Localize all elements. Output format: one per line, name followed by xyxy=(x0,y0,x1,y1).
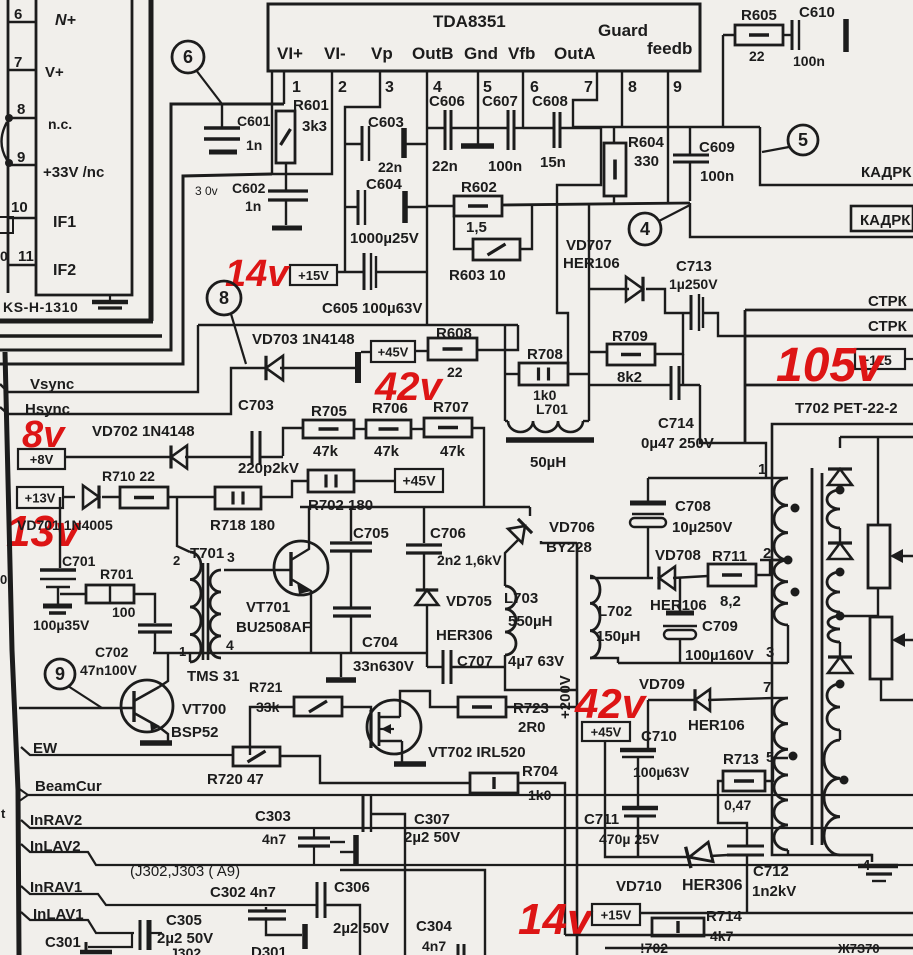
svg-text:HER306: HER306 xyxy=(436,627,493,644)
svg-text:VD708: VD708 xyxy=(655,547,701,564)
flyback primary winding 1 xyxy=(774,478,788,560)
svg-text:1,5: 1,5 xyxy=(466,219,487,236)
svg-text:4n7: 4n7 xyxy=(422,938,446,954)
C305 cap xyxy=(139,920,142,950)
long wire y325 xyxy=(198,324,518,326)
svg-text:IF1: IF1 xyxy=(53,214,76,231)
svg-text:8: 8 xyxy=(219,288,229,308)
svg-text:TDA8351: TDA8351 xyxy=(433,12,506,31)
C704 ground xyxy=(340,653,342,677)
+115 rail xyxy=(745,384,913,387)
svg-text:C303: C303 xyxy=(255,808,291,825)
capacitor C714 0u47 250V xyxy=(670,366,673,400)
svg-text:3: 3 xyxy=(227,549,235,565)
svg-text:1: 1 xyxy=(758,461,766,478)
wires between R705-707 xyxy=(354,428,366,430)
long line R602 net xyxy=(502,203,690,205)
VD707 symbol xyxy=(626,277,643,301)
svg-text:C703: C703 xyxy=(238,397,274,414)
wire circled6 to C601 xyxy=(196,70,222,104)
C712 bottom stub xyxy=(746,855,748,913)
svg-text:R604: R604 xyxy=(628,134,665,151)
T702 outline xyxy=(772,424,913,855)
wire circled9 diag xyxy=(68,686,102,708)
T701 secondary winding xyxy=(210,570,221,658)
screen bottom wire xyxy=(881,679,913,700)
svg-text:22: 22 xyxy=(749,48,765,64)
+45V supply label 2 xyxy=(395,469,443,492)
junction bar xyxy=(355,352,361,383)
circled 6 callout xyxy=(172,41,204,73)
svg-text:C602: C602 xyxy=(232,180,266,196)
svg-text:J302: J302 xyxy=(170,945,201,955)
svg-text:HER306: HER306 xyxy=(682,877,743,894)
svg-text:C608: C608 xyxy=(532,93,568,110)
x505 drop xyxy=(504,325,506,421)
svg-text:C704: C704 xyxy=(362,634,399,651)
svg-text:C713: C713 xyxy=(676,258,712,275)
left frame bus xyxy=(5,352,19,955)
svg-text:+13V: +13V xyxy=(25,491,56,506)
svg-text:2: 2 xyxy=(173,553,180,568)
R707 right drop xyxy=(472,428,484,507)
svg-text:C707: C707 xyxy=(457,653,493,670)
VT702 source ground xyxy=(401,741,403,762)
screen arrow xyxy=(894,639,913,641)
svg-text:IF2: IF2 xyxy=(53,262,76,279)
left pin bus xyxy=(7,0,10,293)
svg-text:C711: C711 xyxy=(584,811,619,828)
capacitor C601 1n xyxy=(221,104,223,127)
svg-text:15n: 15n xyxy=(540,154,566,171)
InRAV1 wire xyxy=(21,886,317,905)
small connector box xyxy=(0,217,13,233)
L703 bottom to rail xyxy=(505,655,577,690)
bottom box wires xyxy=(340,870,485,955)
svg-text:C606: C606 xyxy=(429,93,465,110)
svg-text:n.c.: n.c. xyxy=(48,116,72,132)
pin 10 stub xyxy=(8,217,36,219)
node wire VD708 row xyxy=(590,577,653,579)
svg-text:R704: R704 xyxy=(522,763,559,780)
svg-text:+15V: +15V xyxy=(298,268,329,283)
svg-text:2R0: 2R0 xyxy=(518,719,546,736)
svg-text:feedb: feedb xyxy=(647,39,692,58)
svg-text:47k: 47k xyxy=(313,443,339,460)
svg-text:42v: 42v xyxy=(574,680,648,727)
STRK line 2 xyxy=(745,335,913,338)
VT701 emitter xyxy=(291,579,311,653)
svg-text:C306: C306 xyxy=(334,879,370,896)
svg-text:InRAV2: InRAV2 xyxy=(30,812,82,829)
svg-text:7: 7 xyxy=(584,79,593,96)
svg-text:VD703 1N4148: VD703 1N4148 xyxy=(252,331,355,348)
svg-text:47n100V: 47n100V xyxy=(80,662,137,678)
svg-text:VD701 1N4005: VD701 1N4005 xyxy=(17,517,113,533)
svg-text:33n630V: 33n630V xyxy=(353,658,414,675)
svg-text:0: 0 xyxy=(0,248,8,264)
flyback core xyxy=(811,468,814,845)
flyback secondary winding 2 xyxy=(827,572,840,612)
svg-text:VD702 1N4148: VD702 1N4148 xyxy=(92,423,195,440)
VT702 drain wire xyxy=(400,691,458,717)
svg-text:3k3: 3k3 xyxy=(302,118,327,135)
svg-text:5: 5 xyxy=(798,130,808,150)
R705 left xyxy=(283,428,303,456)
InLAV2 wire xyxy=(21,844,913,865)
T701 core xyxy=(202,563,205,660)
svg-text:9: 9 xyxy=(17,149,25,166)
circled 8 callout xyxy=(207,281,241,315)
svg-text:R720 47: R720 47 xyxy=(207,771,264,788)
svg-text:R723: R723 xyxy=(513,700,549,717)
BeamCur wire xyxy=(28,794,913,796)
svg-text:BeamCur: BeamCur xyxy=(35,778,102,795)
capacitor C605 100u63V xyxy=(363,253,366,290)
+115 label box xyxy=(855,349,905,369)
wire circled8 diag xyxy=(231,314,246,364)
svg-text:R714: R714 xyxy=(706,908,743,925)
svg-text:HER106: HER106 xyxy=(563,255,620,272)
R720 right wire xyxy=(280,756,470,783)
EW wire xyxy=(21,747,233,755)
pin1 wire extension xyxy=(648,477,748,479)
R704 right wire xyxy=(518,783,565,935)
svg-text:OutA: OutA xyxy=(554,44,596,63)
step from guard xyxy=(557,204,568,363)
switch contacts pins 8-9 xyxy=(5,114,13,122)
svg-text:47k: 47k xyxy=(374,443,400,460)
capacitor C707 4u7 63V xyxy=(442,650,445,684)
R721 left wire xyxy=(250,707,294,755)
guard horizontal xyxy=(573,126,760,128)
svg-text:9: 9 xyxy=(673,79,682,96)
VT700 emitter ground xyxy=(159,727,168,741)
IC U601 TDA8351 box xyxy=(268,4,700,71)
BeamCur connector xyxy=(18,788,28,802)
svg-text:C302 4n7: C302 4n7 xyxy=(210,884,276,901)
svg-text:!702: !702 xyxy=(640,940,668,955)
svg-text:100: 100 xyxy=(112,604,136,620)
svg-text:4k7: 4k7 xyxy=(710,928,734,944)
VT700 base wire xyxy=(19,707,134,709)
svg-text:220p2kV: 220p2kV xyxy=(238,460,299,477)
flyback rectifier diode D2 xyxy=(828,543,852,559)
svg-text:11: 11 xyxy=(18,248,34,265)
flyback pin 7 wire xyxy=(773,697,788,699)
svg-text:C607: C607 xyxy=(482,93,518,110)
svg-text:4µ7 63V: 4µ7 63V xyxy=(508,653,564,670)
svg-text:8: 8 xyxy=(17,101,25,118)
wire C714 to flyback xyxy=(700,385,766,478)
R721 right to gate xyxy=(342,707,371,714)
svg-text:R603 10: R603 10 xyxy=(449,267,506,284)
+15V supply label xyxy=(290,265,337,285)
flyback pin 2 wire xyxy=(760,559,788,561)
svg-text:8,2: 8,2 xyxy=(720,593,741,610)
svg-text:VD709: VD709 xyxy=(639,676,685,693)
svg-text:1n: 1n xyxy=(245,198,261,214)
svg-text:1: 1 xyxy=(292,79,301,96)
T701 primary bottom xyxy=(189,653,191,662)
VT701 collector xyxy=(291,507,309,560)
svg-text:1µ250V: 1µ250V xyxy=(669,276,718,292)
resistor R601 3k3 xyxy=(276,111,295,163)
svg-text:Vsync: Vsync xyxy=(30,376,74,393)
svg-text:R707: R707 xyxy=(433,399,469,416)
svg-text:VD706: VD706 xyxy=(549,519,595,536)
svg-text:C702: C702 xyxy=(95,644,129,660)
svg-text:4: 4 xyxy=(226,637,234,653)
svg-text:Gnd: Gnd xyxy=(464,44,498,63)
+15V supply label bottom xyxy=(592,904,640,925)
svg-text:6: 6 xyxy=(14,6,22,23)
svg-text:VI+: VI+ xyxy=(277,44,303,63)
+200V rail xyxy=(576,543,579,955)
wire circled4 diag xyxy=(659,205,690,221)
svg-text:4: 4 xyxy=(640,219,650,239)
VI- loop around R601 xyxy=(272,71,332,174)
svg-text:L703: L703 xyxy=(504,590,538,607)
svg-text:V+: V+ xyxy=(45,64,64,81)
svg-text:C709: C709 xyxy=(702,618,738,635)
svg-text:R709: R709 xyxy=(612,328,648,345)
+45V supply label 3 xyxy=(582,722,630,741)
svg-text:22n: 22n xyxy=(432,158,458,175)
svg-text:L702: L702 xyxy=(598,603,632,620)
wire right of +15V box xyxy=(640,912,913,914)
wire to KADR box line xyxy=(690,203,913,237)
pin 5 Gnd stub xyxy=(477,71,479,144)
svg-text:C706: C706 xyxy=(430,525,466,542)
pin 7 stub xyxy=(8,69,36,71)
svg-text:+45V: +45V xyxy=(402,473,436,489)
STRK bus vertical xyxy=(744,310,747,443)
svg-text:R605: R605 xyxy=(741,7,777,24)
thick bus corner xyxy=(0,319,153,324)
svg-text:R708: R708 xyxy=(527,346,563,363)
ground near KS-H-1310 xyxy=(109,295,111,300)
bus line D riser to VI- net xyxy=(0,174,272,364)
svg-text:C301: C301 xyxy=(45,934,81,951)
flyback rectifier diode D1 xyxy=(828,469,852,485)
svg-text:C610: C610 xyxy=(799,4,835,21)
svg-text:10µ250V: 10µ250V xyxy=(672,519,732,536)
svg-text:C705: C705 xyxy=(353,525,389,542)
svg-text:100µ35V: 100µ35V xyxy=(33,617,90,633)
svg-text:BU2508AF: BU2508AF xyxy=(236,619,311,636)
wire circled5 diag xyxy=(762,147,789,152)
pin 11 stub xyxy=(8,264,36,266)
svg-text:C304: C304 xyxy=(416,918,453,935)
svg-text:Vp: Vp xyxy=(371,44,393,63)
R723 right wire xyxy=(506,706,577,708)
focus top wire xyxy=(877,437,879,525)
flyback rectifier diode D3 xyxy=(828,657,852,673)
svg-text:R710 22: R710 22 xyxy=(102,468,155,484)
C306 right wire xyxy=(325,905,360,955)
svg-text:47k: 47k xyxy=(440,443,466,460)
svg-text:+33V /nc: +33V /nc xyxy=(43,164,104,181)
svg-text:2: 2 xyxy=(338,79,347,96)
resistor R718 180 xyxy=(215,487,261,509)
svg-text:1: 1 xyxy=(179,644,186,659)
svg-text:105v: 105v xyxy=(776,339,885,392)
svg-text:6: 6 xyxy=(183,47,193,67)
pin 1 stub xyxy=(283,71,285,104)
InLAV1 wire xyxy=(21,912,134,933)
svg-text:VT700: VT700 xyxy=(182,701,226,718)
svg-text:3: 3 xyxy=(385,79,394,96)
InRAV2 wire xyxy=(21,820,913,828)
svg-text:BSP52: BSP52 xyxy=(171,724,219,741)
VD706 top wire xyxy=(530,507,540,517)
boxed KADR label xyxy=(851,206,913,231)
flyback primary winding 3 xyxy=(774,698,788,775)
pin 8 stub xyxy=(621,71,623,127)
svg-text:D301: D301 xyxy=(251,944,287,955)
svg-text:C305: C305 xyxy=(166,912,202,929)
VT701 base wire xyxy=(224,569,291,571)
svg-text:100n: 100n xyxy=(488,158,522,175)
screen resistor xyxy=(870,617,892,679)
R718 right riser xyxy=(261,481,308,497)
svg-text:R608: R608 xyxy=(436,325,472,342)
capacitor C609 100n xyxy=(689,127,691,154)
pin 7 jog xyxy=(573,71,597,128)
wire +15V to C605 xyxy=(337,271,364,273)
svg-text:22n: 22n xyxy=(378,159,402,175)
svg-text:+200V: +200V xyxy=(557,675,574,719)
svg-text:100µ63V: 100µ63V xyxy=(633,764,690,780)
svg-text:C307: C307 xyxy=(414,811,450,828)
svg-text:470µ 25V: 470µ 25V xyxy=(599,831,660,847)
flyback pin 3 wire xyxy=(787,625,789,663)
svg-text:KS-H-1310: KS-H-1310 xyxy=(3,299,78,315)
svg-text:1000µ25V: 1000µ25V xyxy=(350,230,419,247)
svg-text:+15V: +15V xyxy=(601,908,632,923)
Hsync wire xyxy=(0,368,266,414)
focus resistor xyxy=(868,525,890,588)
circled 4 callout xyxy=(629,213,661,245)
resistor R720 47 xyxy=(233,747,280,766)
second bus wire xyxy=(605,947,913,950)
D301 bar xyxy=(302,924,308,949)
svg-text:HER106: HER106 xyxy=(688,717,745,734)
capacitor C709 100u160V xyxy=(679,578,681,613)
bus line C riser to C601 net xyxy=(0,104,284,350)
svg-text:2n2 1,6kV: 2n2 1,6kV xyxy=(437,552,502,568)
flyback lower winding xyxy=(840,776,849,785)
svg-text:TMS 31: TMS 31 xyxy=(187,668,240,685)
C301 wire xyxy=(88,933,132,947)
C307 node wires xyxy=(371,814,405,955)
flyback secondary winding 1 xyxy=(827,490,840,528)
+45V supply label xyxy=(371,341,415,362)
svg-text:2µ2 50V: 2µ2 50V xyxy=(333,920,389,937)
C711 lower wire xyxy=(637,816,640,857)
svg-text:BY228: BY228 xyxy=(546,539,592,556)
focus-screen link xyxy=(877,588,879,616)
svg-text:R705: R705 xyxy=(311,403,347,420)
resistor R603 10 xyxy=(473,239,520,260)
focus arrow xyxy=(892,555,913,557)
pin 3 jog xyxy=(345,71,380,272)
svg-text:8: 8 xyxy=(628,79,637,96)
svg-text:+8V: +8V xyxy=(30,452,54,467)
svg-text:R713: R713 xyxy=(723,751,759,768)
pot junction wire xyxy=(842,615,878,617)
resistor R702 180 xyxy=(308,470,354,492)
capacitor C307 xyxy=(362,796,365,832)
flyback ground xyxy=(858,864,898,869)
svg-text:R711: R711 xyxy=(712,548,747,565)
svg-text:3 0v: 3 0v xyxy=(195,184,218,198)
bus line B xyxy=(0,334,162,338)
R709 right riser xyxy=(655,313,683,354)
flyback secondary top xyxy=(840,436,913,439)
svg-text:10: 10 xyxy=(11,199,28,216)
left loop vertical xyxy=(588,204,590,421)
svg-text:C714: C714 xyxy=(658,415,695,432)
thick bus vertical xyxy=(149,0,154,321)
STRK line 1 xyxy=(745,309,913,312)
wire C713 right xyxy=(703,313,745,336)
svg-text:C708: C708 xyxy=(675,498,711,515)
T701 primary winding xyxy=(190,552,201,662)
VT700 collector xyxy=(159,653,168,687)
pin 9 stub xyxy=(8,164,36,166)
pin 9 stub xyxy=(667,71,669,202)
svg-text:Vfb: Vfb xyxy=(508,44,535,63)
svg-text:СТРК: СТРК xyxy=(868,293,908,310)
svg-text:9: 9 xyxy=(55,664,65,684)
svg-text:C710: C710 xyxy=(641,728,677,745)
feedb corner to KADR xyxy=(760,127,913,185)
pin 6 stub xyxy=(522,71,524,128)
R601 bottom stub xyxy=(285,163,287,190)
guard net step down xyxy=(557,128,601,204)
flyback primary winding 4 xyxy=(774,775,788,850)
wire y653 long xyxy=(153,652,427,654)
svg-text:N+: N+ xyxy=(55,12,76,29)
wire pin3 row xyxy=(618,662,788,664)
svg-text:330: 330 xyxy=(634,153,659,170)
flyback secondary winding 3 xyxy=(828,616,840,642)
wire 45V column xyxy=(605,741,687,857)
svg-text:14v: 14v xyxy=(518,895,594,944)
svg-text:0,47: 0,47 xyxy=(724,797,751,813)
svg-text:C604: C604 xyxy=(366,176,403,193)
svg-text:0: 0 xyxy=(0,572,7,587)
svg-text:L701: L701 xyxy=(536,401,568,417)
pin 6 stub xyxy=(8,21,36,23)
Vsync wire xyxy=(0,325,198,392)
L701 core bar xyxy=(506,437,594,443)
circled 5 callout xyxy=(788,125,818,155)
svg-text:Ж7З70: Ж7З70 xyxy=(837,941,880,955)
svg-text:C609: C609 xyxy=(699,139,735,156)
svg-text:R721: R721 xyxy=(249,679,283,695)
flyback secondary winding 4 xyxy=(827,684,840,730)
T701 primary riser xyxy=(177,497,190,552)
svg-text:R701: R701 xyxy=(100,566,134,582)
svg-text:+45V: +45V xyxy=(591,725,622,740)
svg-text:+45V: +45V xyxy=(378,345,409,360)
svg-text:150µH: 150µH xyxy=(596,628,641,645)
flyback primary winding 2 xyxy=(774,560,788,625)
IC KS-H-1310 box xyxy=(36,0,132,295)
